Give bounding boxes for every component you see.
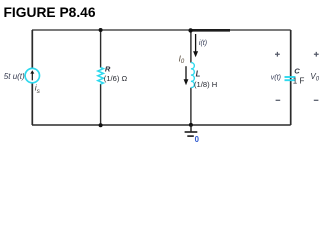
svg-text:V0: V0 — [310, 72, 319, 83]
svg-text:is: is — [35, 83, 41, 95]
svg-text:(1/6) Ω: (1/6) Ω — [104, 74, 128, 83]
svg-text:C: C — [294, 66, 300, 75]
svg-text:L: L — [196, 69, 201, 78]
svg-text:FIGURE P8.46: FIGURE P8.46 — [4, 5, 96, 20]
svg-text:5t u(t): 5t u(t) — [4, 72, 25, 81]
svg-text:(1/8) H: (1/8) H — [194, 80, 217, 89]
svg-text:1 F: 1 F — [293, 77, 305, 86]
svg-text:R: R — [105, 64, 111, 73]
svg-text:v(t): v(t) — [271, 75, 281, 82]
svg-text:I0: I0 — [179, 55, 185, 66]
svg-text:0: 0 — [195, 135, 200, 144]
svg-text:i(t): i(t) — [199, 40, 207, 47]
